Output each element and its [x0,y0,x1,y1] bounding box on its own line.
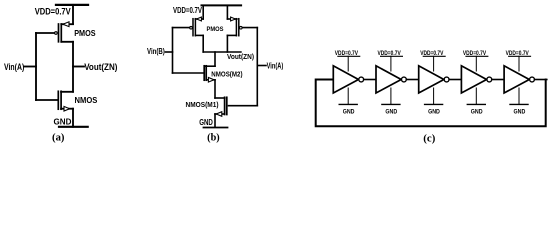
svg-text:NMOS(M1): NMOS(M1) [186,100,219,109]
svg-text:VDD=0.7V: VDD=0.7V [173,6,202,15]
svg-text:(c): (c) [423,134,435,145]
svg-text:GND: GND [199,118,213,127]
svg-text:PMOS: PMOS [74,28,96,38]
svg-text:Vin(A): Vin(A) [267,61,284,70]
svg-text:(b): (b) [207,133,220,144]
svg-text:VDD=0.7V: VDD=0.7V [35,6,72,16]
svg-text:Vout(ZN): Vout(ZN) [227,52,254,61]
svg-text:Vin(A): Vin(A) [4,61,24,72]
svg-text:PMOS: PMOS [207,26,224,33]
svg-text:Vin(B): Vin(B) [147,47,165,56]
svg-text:VDD=0.7V: VDD=0.7V [335,51,358,57]
svg-text:GND: GND [343,108,355,115]
svg-text:NMOS(M2): NMOS(M2) [211,69,243,78]
svg-text:(a): (a) [52,133,65,144]
svg-text:NMOS: NMOS [75,95,98,105]
svg-text:GND: GND [54,116,72,126]
svg-text:Vout(ZN): Vout(ZN) [84,61,117,72]
